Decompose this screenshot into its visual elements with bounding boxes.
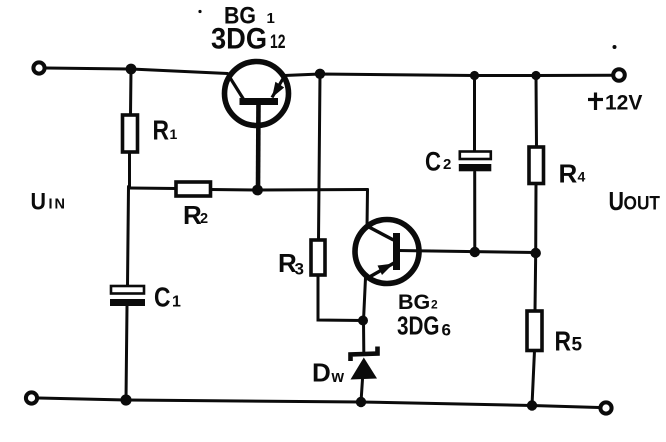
svg-text:OUT: OUT [624, 194, 661, 215]
svg-text:1: 1 [172, 294, 181, 311]
svg-text:3DG: 3DG [211, 23, 267, 56]
svg-text:1: 1 [267, 10, 275, 27]
svg-text:U: U [609, 186, 625, 216]
svg-text:R: R [153, 115, 170, 146]
svg-text:IN: IN [49, 197, 68, 213]
svg-text:3: 3 [295, 260, 304, 279]
svg-text:4: 4 [578, 169, 586, 185]
svg-text:C: C [154, 282, 171, 313]
svg-text:12: 12 [270, 32, 286, 53]
svg-text:R: R [559, 159, 578, 189]
svg-text:R: R [555, 326, 572, 357]
svg-text:2: 2 [431, 298, 438, 312]
svg-text:12V: 12V [605, 92, 642, 115]
svg-text:3DG: 3DG [397, 311, 440, 341]
svg-text:C: C [425, 147, 441, 177]
svg-text:D: D [312, 358, 331, 388]
svg-text:5: 5 [572, 335, 583, 356]
svg-text:w: w [331, 367, 345, 386]
svg-text:U: U [31, 189, 47, 216]
svg-text:2: 2 [443, 156, 451, 173]
svg-text:1: 1 [170, 126, 178, 142]
svg-text:6: 6 [442, 321, 451, 340]
svg-text:2: 2 [200, 211, 208, 227]
